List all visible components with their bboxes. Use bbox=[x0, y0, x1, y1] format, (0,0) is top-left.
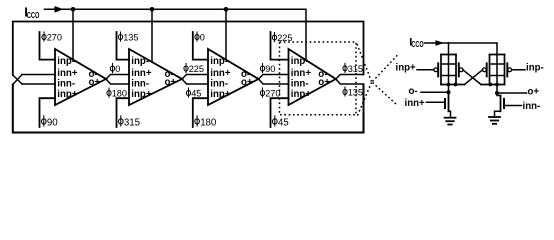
op-amp stage1 bbox=[55, 49, 106, 105]
svg-text:180: 180 bbox=[112, 89, 127, 99]
svg-text:inp-: inp- bbox=[131, 56, 149, 67]
svg-text:135: 135 bbox=[123, 33, 138, 43]
wire inn+ bbox=[427, 101, 446, 103]
svg-text:inn-: inn- bbox=[523, 101, 541, 112]
op-amp stage3 bbox=[208, 49, 259, 105]
wire bias stage1 bbox=[72, 9, 74, 60]
wire inn- bbox=[504, 105, 522, 107]
transistor M3 gate plate bbox=[486, 63, 488, 76]
wire o- stage2 bbox=[182, 75, 208, 80]
wire inp+ tap stage3 bbox=[193, 98, 208, 127]
wire inp+ tap stage1 bbox=[40, 98, 56, 127]
wire source-drain center right bbox=[496, 43, 498, 93]
transistor pair right outline bbox=[481, 55, 505, 85]
cross wire A bbox=[465, 70, 483, 85]
wire o+ stage2 bbox=[182, 79, 208, 84]
label inp+ bbox=[396, 63, 417, 74]
svg-text:o+: o+ bbox=[241, 77, 253, 88]
transistor M3 bubble bbox=[482, 68, 486, 72]
label phi225 bbox=[184, 64, 204, 75]
label phi0 bbox=[110, 64, 120, 75]
transistor M6 gate plate bbox=[503, 99, 505, 108]
wire inp+ tap stage4 bbox=[271, 98, 289, 127]
junction dot rail 2 bbox=[150, 7, 155, 12]
svg-text:inn-: inn- bbox=[291, 78, 309, 89]
svg-text:o+: o+ bbox=[89, 77, 101, 88]
wire ICCO arrow bbox=[45, 8, 74, 10]
label phi135 bbox=[343, 87, 363, 98]
svg-text:o-: o- bbox=[409, 86, 418, 97]
wire source-drain center left bbox=[448, 43, 450, 92]
svg-text:CCO: CCO bbox=[27, 10, 40, 20]
wire M2 stubs bbox=[441, 75, 456, 77]
label phi180 bbox=[195, 116, 217, 129]
wire o+ bbox=[497, 92, 527, 94]
label phi0 bbox=[195, 32, 205, 43]
svg-text:45: 45 bbox=[191, 89, 201, 99]
ground left bbox=[445, 118, 456, 125]
label phi45 bbox=[273, 116, 290, 129]
label phi45 bbox=[186, 88, 201, 99]
junction dot rail 3 bbox=[224, 7, 229, 12]
wire inp+ tap stage2 bbox=[117, 98, 130, 127]
wire o- stage1 bbox=[106, 75, 129, 80]
junction dot rail 1 bbox=[71, 7, 76, 12]
op-amp stage4 bbox=[289, 49, 336, 105]
svg-text:inp-: inp- bbox=[57, 56, 75, 67]
svg-text:inn-: inn- bbox=[210, 78, 228, 89]
transistor M4 gate plate bbox=[506, 63, 508, 76]
transistor pair left outline bbox=[441, 55, 465, 85]
callout dotted ray 2 bbox=[358, 83, 372, 116]
svg-text:90: 90 bbox=[47, 117, 58, 128]
svg-text:45: 45 bbox=[278, 117, 289, 128]
svg-text:o+: o+ bbox=[318, 77, 330, 88]
wire o+ stage1 bbox=[106, 79, 129, 84]
transistor M6 channel bbox=[500, 96, 502, 112]
wire o- stage3 bbox=[259, 75, 289, 80]
svg-text:inp+: inp+ bbox=[291, 89, 312, 100]
junction dot left pair center bbox=[447, 83, 451, 87]
callout dotted ray 1 bbox=[357, 44, 372, 82]
svg-text:180: 180 bbox=[200, 117, 217, 128]
junction dot right pair left bbox=[488, 83, 492, 87]
label phi315 bbox=[119, 116, 141, 129]
dotted magnifier box bbox=[280, 42, 357, 115]
label inp- bbox=[526, 63, 544, 74]
wire inp- tap stage4 bbox=[271, 32, 289, 60]
svg-text:inn+: inn+ bbox=[405, 98, 426, 109]
wire o- stage4 bbox=[336, 75, 364, 80]
label phi180 bbox=[107, 88, 127, 99]
cross wire B bbox=[463, 70, 481, 85]
label inn+ bbox=[405, 98, 426, 109]
wire ICCO arrow right bbox=[425, 42, 449, 44]
cross-coupling X wire 2 bbox=[13, 75, 22, 85]
wire M1 stubs bbox=[441, 63, 456, 65]
label phi135 bbox=[118, 32, 138, 43]
wire inn- stage1 bbox=[22, 83, 55, 85]
wire M3 stubs bbox=[490, 63, 505, 65]
wire bias stage3 bbox=[225, 9, 227, 60]
label phi90 bbox=[42, 116, 59, 129]
label ICCO right bbox=[409, 37, 424, 50]
wire feedback loop top bbox=[13, 22, 364, 76]
wire M6 drain bbox=[497, 93, 501, 96]
wire M5 source bbox=[449, 111, 451, 117]
svg-text:inp-: inp- bbox=[291, 56, 309, 67]
svg-text:270: 270 bbox=[265, 89, 280, 99]
junction dot right pair center bbox=[495, 83, 499, 87]
ground right bbox=[489, 117, 500, 124]
transistor M1 gate plate bbox=[437, 63, 439, 76]
wire ICCO rail bbox=[73, 9, 306, 60]
wire o- bbox=[421, 91, 449, 93]
svg-text:90: 90 bbox=[265, 64, 275, 74]
junction dot o+ bbox=[495, 91, 499, 95]
transistor M4 bubble bbox=[508, 68, 512, 72]
callout dotted ray 3 bbox=[373, 54, 400, 82]
transistor M2 bubble bbox=[459, 68, 463, 72]
op-amp stage2 bbox=[129, 49, 182, 105]
svg-text:inp+: inp+ bbox=[131, 89, 152, 100]
transistor M5 gate plate bbox=[444, 99, 446, 108]
wire o+ stage3 bbox=[259, 79, 289, 84]
svg-text:o+: o+ bbox=[165, 77, 177, 88]
label phi225 bbox=[272, 33, 292, 44]
wire o+ stage4 bbox=[336, 79, 364, 84]
svg-text:0: 0 bbox=[200, 33, 205, 43]
label phi270 bbox=[42, 32, 62, 43]
junction dot o- bbox=[447, 90, 451, 94]
wire inp- tap stage1 bbox=[40, 32, 56, 60]
svg-text:inp+: inp+ bbox=[210, 89, 231, 100]
label o- bbox=[409, 86, 418, 97]
svg-text:225: 225 bbox=[189, 64, 204, 74]
svg-text:inp-: inp- bbox=[526, 63, 544, 74]
wire inn+ stage1 bbox=[22, 74, 55, 76]
svg-text:315: 315 bbox=[124, 117, 141, 128]
svg-text:inp+: inp+ bbox=[57, 89, 78, 100]
wire bias stage2 bbox=[151, 9, 153, 62]
svg-text:inp-: inp- bbox=[210, 56, 228, 67]
label o+ bbox=[528, 87, 540, 98]
label phi315 bbox=[343, 63, 363, 74]
transistor M1 bubble bbox=[434, 68, 438, 72]
wire inp- tap stage2 bbox=[117, 32, 130, 60]
svg-text:0: 0 bbox=[115, 64, 120, 74]
svg-text:o+: o+ bbox=[528, 87, 540, 98]
wire supply rail bbox=[449, 42, 497, 44]
wire inp- tap stage3 bbox=[193, 32, 208, 60]
wire M4 stubs bbox=[490, 75, 505, 77]
label ICCO bbox=[24, 4, 40, 19]
svg-text:CCO: CCO bbox=[411, 39, 424, 49]
svg-text:inp+: inp+ bbox=[396, 63, 417, 74]
transistor M5 channel bbox=[448, 92, 450, 111]
label phi270 bbox=[260, 88, 280, 99]
label phi90 bbox=[260, 64, 275, 75]
svg-text:270: 270 bbox=[47, 33, 62, 43]
label inn- bbox=[523, 101, 541, 112]
wire inp+ bbox=[417, 69, 434, 71]
wire M6 source bbox=[495, 111, 501, 116]
svg-text:inn-: inn- bbox=[57, 78, 75, 89]
svg-text:inn-: inn- bbox=[131, 78, 149, 89]
wire feedback loop bottom bbox=[13, 85, 364, 133]
callout dotted ray 4 bbox=[373, 83, 398, 106]
wire inp- bbox=[512, 69, 525, 71]
transistor M2 gate plate bbox=[458, 63, 460, 76]
cross-coupling X wire 1 bbox=[13, 75, 22, 84]
junction dot left pair right bbox=[454, 83, 458, 87]
